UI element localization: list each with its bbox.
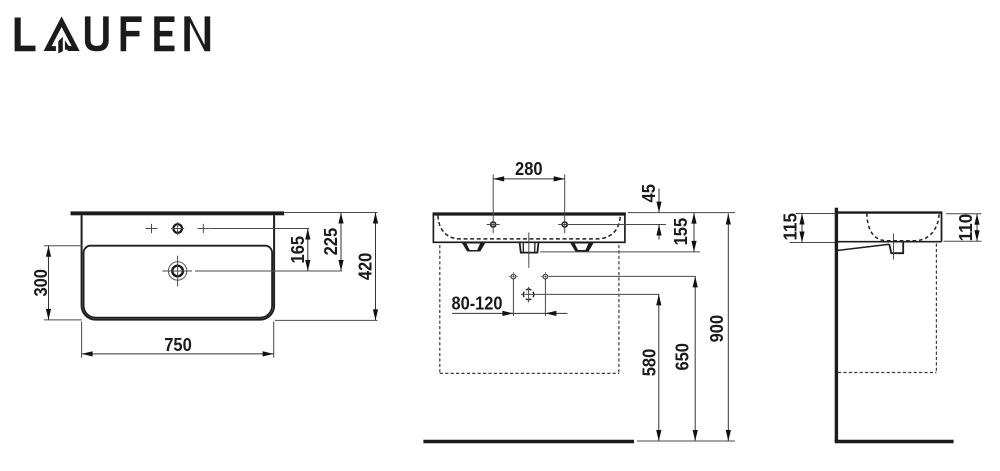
drain trap extension line — [537, 293, 659, 295]
svg-text:110: 110 — [956, 214, 976, 242]
LAUFEN logo — [15, 16, 211, 53]
svg-text:650: 650 — [673, 343, 693, 371]
svg-text:420: 420 — [356, 253, 376, 281]
top edge extension line right — [285, 212, 378, 214]
dim 80-120 arrow line — [452, 312, 568, 314]
faucet hole ring — [173, 224, 182, 233]
floor line side view — [835, 440, 954, 443]
dim 110 extension bottom — [944, 240, 982, 242]
dim 110 line — [976, 214, 978, 241]
logo letter E — [154, 16, 174, 51]
wall line — [835, 208, 838, 442]
dim 750 line — [82, 353, 274, 355]
front body outline — [433, 213, 625, 242]
drain axis line — [528, 233, 530, 268]
side drain axis line — [893, 234, 895, 260]
svg-text:80-120: 80-120 — [452, 293, 503, 313]
floor line front view — [423, 440, 634, 443]
dim 155 line — [693, 213, 695, 252]
dim 225 line — [340, 213, 342, 272]
dim 900 line — [727, 214, 729, 442]
top view back edge thick bar — [71, 211, 285, 215]
svg-text:165: 165 — [288, 236, 308, 264]
dim 115 extension top — [796, 213, 836, 215]
logo letter A left foot — [46, 46, 56, 51]
front dashed installation outline bottom — [440, 372, 619, 374]
dim 110 extension top — [946, 213, 982, 215]
side basin underside diagonal — [838, 244, 889, 250]
right hanger bracket — [570, 242, 594, 251]
svg-text:115: 115 — [780, 213, 800, 241]
right fixing dot — [543, 274, 548, 279]
front dashed installation outline right — [618, 245, 620, 373]
fixing dots drop lines — [512, 279, 514, 316]
drain centre extension line — [195, 270, 342, 272]
logo letter A legs — [44, 16, 80, 51]
svg-text:280: 280 — [515, 159, 543, 179]
right plus mark — [198, 224, 210, 233]
front top edge extension line right — [628, 212, 735, 214]
dim 420 line — [375, 213, 377, 321]
dim 45 line — [658, 189, 660, 213]
left plus mark — [146, 224, 158, 233]
front bowl dashed outline — [438, 216, 620, 239]
dim 300 extension bottom — [44, 319, 82, 321]
svg-text:225: 225 — [321, 228, 341, 256]
svg-text:155: 155 — [671, 218, 691, 246]
logo letter A inner blade — [58, 37, 63, 54]
front dashed installation outline left — [439, 245, 441, 373]
left hanger bracket — [462, 242, 486, 251]
faucet hole crosshair — [171, 222, 184, 235]
side dashed installation outline right — [935, 244, 937, 373]
side basin top edge — [838, 211, 942, 213]
right faucet hole — [562, 222, 567, 227]
dim 750 extension left — [81, 322, 83, 358]
dim 750 extension right — [273, 322, 275, 358]
svg-text:45: 45 — [639, 184, 659, 203]
dim 300 extension top — [44, 245, 83, 247]
dim 155 bottom extension — [540, 251, 700, 253]
side dashed installation outline bottom — [838, 372, 936, 374]
svg-text:300: 300 — [31, 269, 51, 297]
dim 300 line — [48, 246, 50, 320]
drain ring — [172, 266, 183, 277]
dim 280 extension lines — [492, 174, 494, 233]
svg-text:580: 580 — [640, 349, 660, 377]
logo letter A inner triangle — [65, 40, 71, 49]
side basin front edge — [941, 213, 943, 242]
svg-text:900: 900 — [707, 315, 727, 343]
dim 650 line — [694, 276, 696, 441]
dim 580 line — [658, 294, 660, 441]
drain spout box — [520, 242, 539, 252]
dim 165 line — [307, 229, 309, 272]
side drain box — [889, 243, 903, 254]
top view body outline — [82, 215, 275, 319]
logo letter F — [121, 16, 142, 51]
left faucet hole — [491, 222, 496, 227]
drain crosshair — [162, 256, 192, 287]
left fixing dot — [511, 274, 516, 279]
top view bowl rim — [84, 246, 273, 318]
dim 280 line — [493, 178, 565, 180]
logo letter U — [85, 16, 109, 51]
logo letter L — [15, 18, 36, 52]
logo letter N — [184, 16, 210, 51]
fixing dots extension line — [549, 275, 696, 277]
drain trap crosshair circle (4 arcs with diagonal gaps) — [523, 289, 533, 299]
logo letter A right foot — [68, 46, 76, 51]
faucet hole centre extension right — [571, 224, 667, 226]
dim 115 line — [801, 214, 803, 243]
bowl bottom extension line right — [275, 319, 378, 321]
faucet centre extension line — [210, 228, 310, 230]
drain spout inner lines — [523, 242, 535, 252]
dim 115 extension bottom — [790, 242, 836, 244]
side basin bottom edge — [838, 241, 942, 243]
side bowl dashed outline — [867, 213, 939, 241]
svg-text:750: 750 — [164, 335, 192, 355]
drain outer circle — [168, 262, 186, 280]
floor extension line — [637, 440, 735, 442]
front top edge thick — [433, 212, 626, 215]
